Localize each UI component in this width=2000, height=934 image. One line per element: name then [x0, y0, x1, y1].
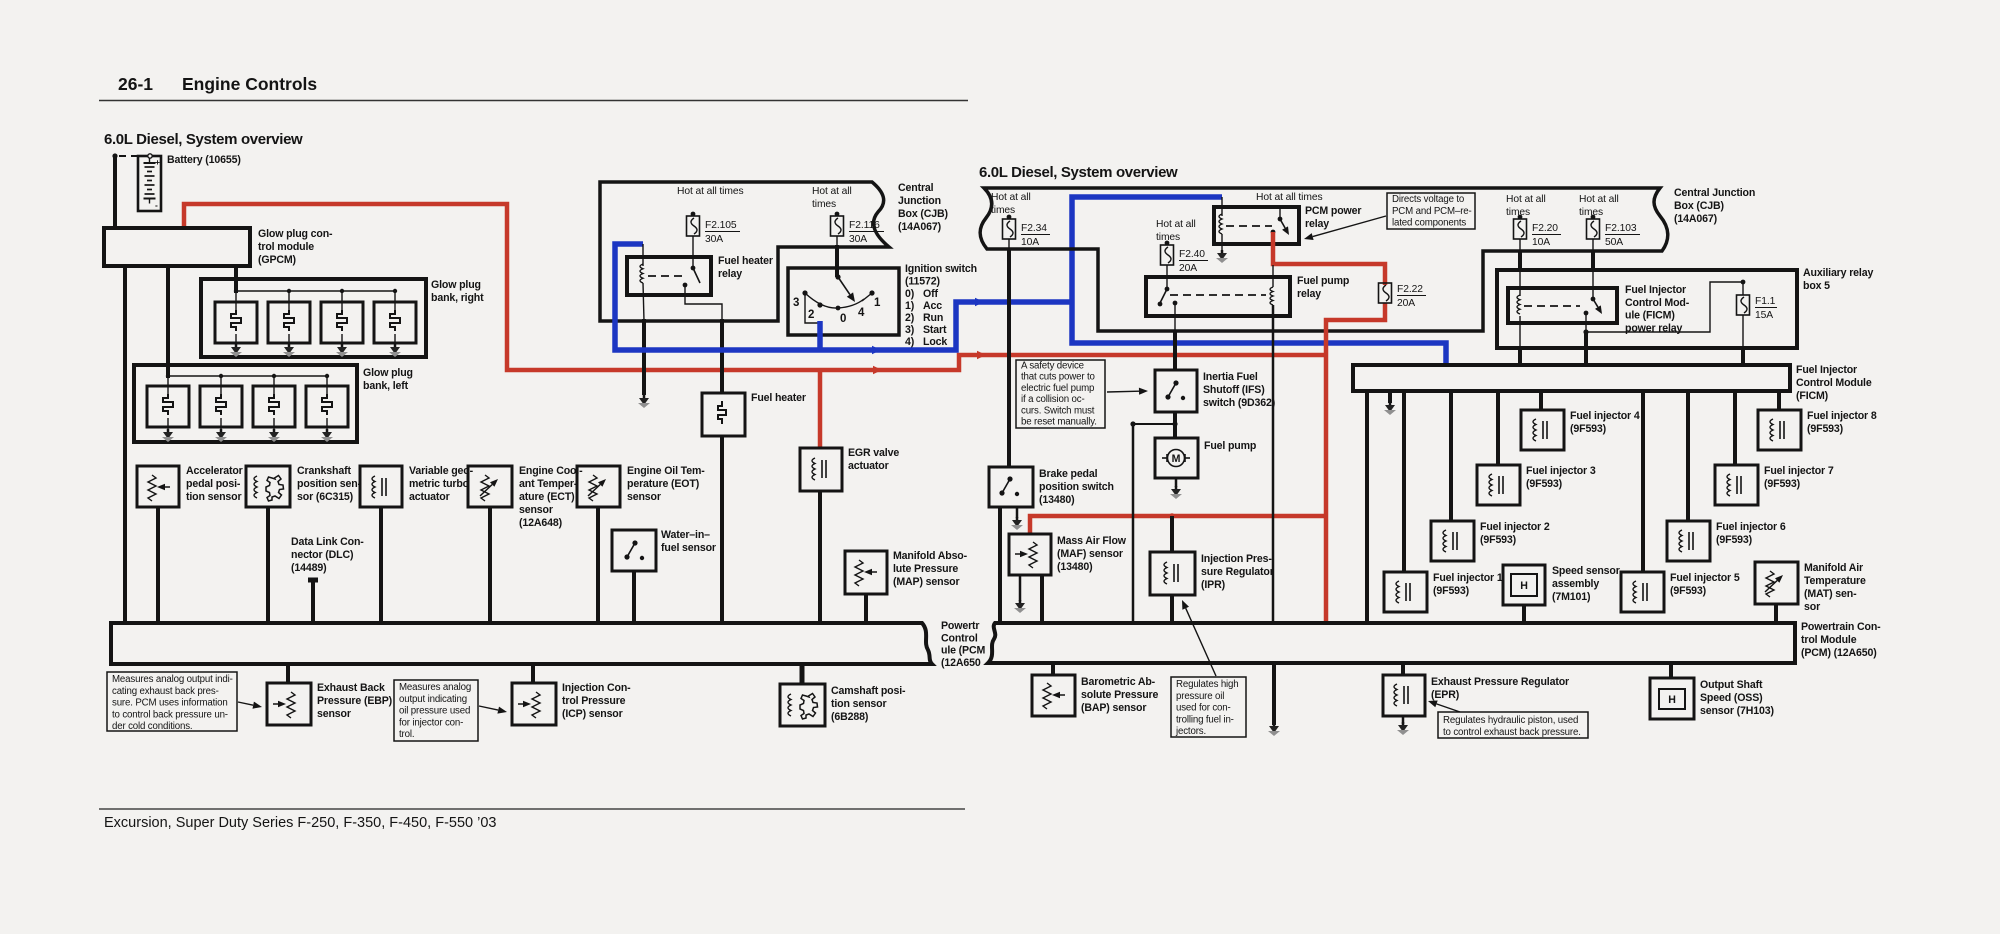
svg-text:Fuel Injector: Fuel Injector — [1625, 284, 1686, 296]
note: measures analog output exhaust back pressure — [107, 672, 237, 731]
fuel injector 4 9F593 — [1539, 391, 1543, 410]
svg-text:Injection Pres-: Injection Pres- — [1201, 553, 1272, 565]
svg-text:Hot at all times: Hot at all times — [677, 186, 744, 197]
barometric absolute pressure BAP sensor — [1051, 663, 1055, 675]
svg-text:Lock: Lock — [923, 336, 947, 348]
svg-text:pedal posi-: pedal posi- — [186, 478, 241, 490]
svg-text:actuator: actuator — [409, 491, 450, 503]
svg-text:sure Regulator: sure Regulator — [1201, 566, 1274, 578]
svg-text:Fuel Injector: Fuel Injector — [1796, 364, 1857, 376]
auxiliary relay box 5 — [1497, 270, 1797, 348]
FICM ground stub — [1388, 391, 1392, 403]
svg-text:sensor: sensor — [317, 708, 351, 720]
svg-text:(9F593): (9F593) — [1526, 478, 1562, 490]
svg-text:(BAP) sensor: (BAP) sensor — [1081, 702, 1146, 714]
svg-text:F2.34: F2.34 — [1021, 223, 1047, 234]
fuel injector control module FICM power relay — [1508, 288, 1617, 323]
svg-text:Data Link Con-: Data Link Con- — [291, 536, 364, 548]
svg-text:2: 2 — [808, 309, 814, 321]
svg-text:26-1: 26-1 — [118, 74, 153, 94]
svg-text:jectors.: jectors. — [1175, 726, 1206, 737]
svg-text:(11572): (11572) — [905, 276, 940, 288]
accelerator pedal position sensor — [137, 466, 179, 507]
svg-text:lute Pressure: lute Pressure — [893, 563, 958, 575]
svg-text:30A: 30A — [849, 234, 867, 245]
svg-text:sure. PCM uses information: sure. PCM uses information — [112, 698, 228, 709]
fuel injector 7 9F593 — [1733, 391, 1737, 465]
fuel injector 8 9F593 — [1777, 391, 1781, 410]
wire GPCM to glow bank left — [166, 266, 170, 378]
svg-text:relay: relay — [1305, 218, 1329, 230]
svg-text:Box (CJB): Box (CJB) — [898, 208, 948, 220]
svg-text:ant Temper-: ant Temper- — [519, 478, 578, 490]
central junction box CJB 14A067 outline (left) — [600, 182, 889, 321]
svg-text:Excursion, Super Duty Series F: Excursion, Super Duty Series F-250, F-35… — [104, 815, 496, 831]
svg-text:Fuel injector 5: Fuel injector 5 — [1670, 572, 1740, 584]
svg-text:that cuts power to: that cuts power to — [1021, 372, 1095, 383]
svg-text:PCM and PCM–re-: PCM and PCM–re- — [1392, 206, 1472, 217]
svg-text:(EPR): (EPR) — [1431, 689, 1459, 701]
wire battery to GPCM — [113, 157, 117, 228]
svg-text:F2.22: F2.22 — [1397, 284, 1423, 295]
glow plug bank left internal bus — [168, 375, 327, 377]
glow plug L4 — [325, 374, 329, 378]
svg-text:Hot at all times: Hot at all times — [1256, 192, 1323, 203]
svg-text:3): 3) — [905, 324, 914, 336]
svg-text:nector (DLC): nector (DLC) — [291, 549, 353, 561]
svg-text:1: 1 — [874, 297, 881, 309]
svg-text:trolling fuel in-: trolling fuel in- — [1176, 714, 1234, 725]
svg-text:(9F593): (9F593) — [1670, 585, 1706, 597]
fuel heater relay — [627, 257, 711, 295]
fuel injector 2 9F593 — [1449, 391, 1453, 521]
svg-text:(GPCM): (GPCM) — [258, 254, 296, 266]
svg-text:Mass Air Flow: Mass Air Flow — [1057, 535, 1127, 547]
svg-text:(13480): (13480) — [1039, 494, 1074, 506]
svg-text:(9F593): (9F593) — [1764, 478, 1800, 490]
svg-text:Control Mod-: Control Mod- — [1625, 297, 1690, 309]
svg-text:Glow plug: Glow plug — [363, 367, 413, 379]
svg-text:3: 3 — [793, 297, 799, 309]
battery B1 (10655) — [138, 156, 161, 211]
wire relay output to fuel heater — [685, 287, 722, 322]
wire GPCM to PCM bus — [123, 266, 127, 623]
svg-text:50A: 50A — [1605, 237, 1623, 248]
svg-text:20A: 20A — [1179, 263, 1197, 274]
svg-text:M: M — [1172, 453, 1181, 465]
red battery feed wire — [184, 204, 1326, 370]
wire PCM power relay to fuel pump relay coil — [1272, 265, 1274, 287]
svg-text:(9F593): (9F593) — [1570, 423, 1606, 435]
svg-text:6.0L Diesel, System overview: 6.0L Diesel, System overview — [979, 164, 1178, 181]
svg-text:times: times — [812, 199, 836, 210]
svg-text:Hot at all: Hot at all — [812, 186, 852, 197]
powertrain control module PCM bus (right) 12A650 — [988, 623, 1795, 663]
svg-text:Fuel injector 8: Fuel injector 8 — [1807, 410, 1877, 422]
glow plug bank right box — [201, 279, 426, 357]
svg-text:(12A650: (12A650 — [941, 657, 981, 669]
svg-text:bank, left: bank, left — [363, 380, 409, 392]
svg-text:box 5: box 5 — [1803, 280, 1830, 292]
svg-text:F2.40: F2.40 — [1179, 249, 1205, 260]
fuse F2.22 20A — [1379, 283, 1392, 303]
svg-text:Central: Central — [898, 182, 934, 194]
glow plug R3 — [340, 289, 344, 293]
svg-text:Ignition switch: Ignition switch — [905, 263, 977, 275]
svg-text:10A: 10A — [1021, 237, 1039, 248]
svg-text:sensor (7H103): sensor (7H103) — [1700, 705, 1774, 717]
svg-text:(PCM) (12A650): (PCM) (12A650) — [1801, 647, 1877, 659]
svg-text:Crankshaft: Crankshaft — [297, 465, 351, 477]
svg-text:bank, right: bank, right — [431, 292, 484, 304]
svg-text:H: H — [1668, 694, 1676, 706]
wire PCM power relay coil to ground — [1221, 234, 1223, 251]
svg-text:position switch: position switch — [1039, 481, 1114, 493]
svg-text:Start: Start — [923, 324, 947, 336]
svg-text:der cold conditions.: der cold conditions. — [112, 721, 192, 732]
fuel pump — [1155, 438, 1198, 478]
wire GPCM to glow bank right — [234, 266, 238, 293]
svg-text:Manifold Air: Manifold Air — [1804, 562, 1863, 574]
svg-text:sor: sor — [1804, 601, 1820, 613]
svg-text:relay: relay — [718, 268, 742, 280]
svg-text:fuel sensor: fuel sensor — [661, 542, 716, 554]
fuel pump relay — [1146, 277, 1290, 316]
svg-text:-: - — [155, 200, 158, 210]
glow plug R2 — [287, 289, 291, 293]
injection pressure regulator IPR — [1169, 513, 1175, 519]
fuel injector 6 9F593 — [1686, 391, 1690, 521]
svg-text:trol Pressure: trol Pressure — [562, 695, 626, 707]
svg-text:ule (FICM): ule (FICM) — [1625, 310, 1675, 322]
svg-text:Speed sensor: Speed sensor — [1552, 565, 1620, 577]
svg-text:Brake pedal: Brake pedal — [1039, 468, 1098, 480]
svg-text:Glow plug: Glow plug — [431, 279, 481, 291]
wire FICM relay coil down — [1519, 316, 1521, 348]
svg-text:(MAP) sensor: (MAP) sensor — [893, 576, 960, 588]
svg-text:switch (9D362): switch (9D362) — [1203, 397, 1275, 409]
svg-text:Manifold Abso-: Manifold Abso- — [893, 550, 968, 562]
glow plug R4 — [393, 289, 397, 293]
svg-text:Control Module: Control Module — [1796, 377, 1872, 389]
svg-text:be reset manually.: be reset manually. — [1021, 417, 1097, 428]
camshaft position sensor 6B288 — [800, 664, 805, 684]
svg-text:Directs voltage to: Directs voltage to — [1392, 194, 1464, 205]
svg-text:4: 4 — [858, 307, 865, 319]
svg-text:Pressure (EBP): Pressure (EBP) — [317, 695, 392, 707]
fuel injector 5 9F593 — [1641, 391, 1645, 572]
variable geometric turbo actuator — [360, 466, 402, 507]
svg-text:output indicating: output indicating — [399, 694, 467, 705]
svg-text:(9F593): (9F593) — [1480, 534, 1516, 546]
svg-text:Shutoff (IFS): Shutoff (IFS) — [1203, 384, 1265, 396]
svg-text:(6B288): (6B288) — [831, 711, 868, 723]
note: directs voltage to PCM — [1387, 193, 1475, 229]
svg-text:lated components: lated components — [1392, 218, 1466, 229]
red wire PCM power relay to F2.22 and PCM — [1273, 232, 1385, 285]
svg-text:Variable geo-: Variable geo- — [409, 465, 474, 477]
svg-text:(13480): (13480) — [1057, 561, 1092, 573]
svg-text:Central Junction: Central Junction — [1674, 187, 1755, 199]
svg-text:Camshaft posi-: Camshaft posi- — [831, 685, 906, 697]
ignition switch 11572 — [788, 268, 899, 335]
svg-text:perature (EOT): perature (EOT) — [627, 478, 699, 490]
svg-text:for injector con-: for injector con- — [399, 717, 463, 728]
glow plug L2 — [219, 374, 223, 378]
glow plug R1 — [234, 289, 238, 293]
svg-text:Acc: Acc — [923, 300, 942, 312]
svg-text:(FICM): (FICM) — [1796, 390, 1828, 402]
svg-text:trol.: trol. — [399, 729, 414, 740]
svg-text:Control: Control — [941, 632, 978, 644]
wire fuel pump relay coil to PCM bus — [1272, 305, 1275, 623]
svg-text:times: times — [991, 205, 1015, 216]
svg-text:A safety device: A safety device — [1021, 361, 1084, 372]
svg-text:curs. Switch must: curs. Switch must — [1021, 405, 1095, 416]
ground below PCM bus — [1272, 663, 1276, 725]
svg-text:F2.20: F2.20 — [1532, 223, 1558, 234]
svg-text:trol Module: trol Module — [1801, 634, 1857, 646]
svg-text:Inertia Fuel: Inertia Fuel — [1203, 371, 1258, 383]
svg-text:Hot at all: Hot at all — [1156, 219, 1196, 230]
svg-text:Fuel injector 6: Fuel injector 6 — [1716, 521, 1786, 533]
water-in-fuel sensor — [612, 530, 656, 571]
glow plug L3 — [272, 374, 276, 378]
svg-text:H: H — [1520, 580, 1528, 592]
svg-text:(9F593): (9F593) — [1807, 423, 1843, 435]
fuel injector 1 9F593 — [1402, 391, 1406, 572]
svg-text:assembly: assembly — [1552, 578, 1599, 590]
output shaft speed OSS sensor 7H103 — [1669, 663, 1673, 678]
svg-text:F2.105: F2.105 — [705, 220, 737, 231]
svg-text:Powertr: Powertr — [941, 620, 979, 632]
blue wire CJB2 to relays / FICM — [1072, 197, 1446, 365]
red wire EGR branch — [818, 370, 823, 448]
note: measures analog output oil pressure — [394, 680, 478, 741]
svg-text:Auxiliary relay: Auxiliary relay — [1803, 267, 1873, 279]
brake pedal position switch 13480 — [989, 467, 1033, 507]
note: regulates high pressure oil — [1171, 677, 1246, 737]
glow plug bank left box — [134, 365, 357, 442]
wire FICM relay output to F1.1 and FICM — [1585, 313, 1587, 332]
engine coolant temperature ECT sensor 12A648 — [468, 466, 512, 507]
svg-text:sor (6C315): sor (6C315) — [297, 491, 353, 503]
svg-text:(9F593): (9F593) — [1433, 585, 1469, 597]
exhaust pressure regulator EPR — [1401, 663, 1405, 675]
manifold air temperature MAT sensor — [1755, 562, 1798, 604]
svg-text:15A: 15A — [1755, 310, 1773, 321]
svg-text:Barometric Ab-: Barometric Ab- — [1081, 676, 1156, 688]
svg-text:30A: 30A — [705, 234, 723, 245]
svg-text:Regulates high: Regulates high — [1176, 679, 1239, 690]
note: a safety device IFS — [1016, 360, 1105, 428]
engine oil temperature EOT sensor — [577, 466, 620, 507]
svg-text:actuator: actuator — [848, 460, 889, 472]
svg-text:0: 0 — [840, 313, 846, 325]
svg-text:Measures analog: Measures analog — [399, 682, 471, 693]
svg-text:(7M101): (7M101) — [1552, 591, 1590, 603]
svg-text:Accelerator: Accelerator — [186, 465, 243, 477]
svg-text:(14A067): (14A067) — [898, 221, 941, 233]
svg-text:Powertrain Con-: Powertrain Con- — [1801, 621, 1881, 633]
crankshaft position sensor 6C315 — [246, 466, 290, 507]
wire IFS to fuel pump with PCM tap — [1173, 412, 1177, 438]
svg-text:to control exhaust back pressu: to control exhaust back pressure. — [1443, 727, 1581, 738]
glow plug control module GPCM — [104, 228, 250, 266]
svg-text:tion sensor: tion sensor — [186, 491, 241, 503]
svg-text:Run: Run — [923, 312, 943, 324]
svg-text:Engine Oil Tem-: Engine Oil Tem- — [627, 465, 705, 477]
note: regulates hydraulic piston — [1438, 712, 1588, 738]
wire FICM to PCM — [1365, 391, 1369, 623]
svg-text:(MAF) sensor: (MAF) sensor — [1057, 548, 1123, 560]
exhaust back pressure EBP sensor — [286, 664, 290, 683]
glow plug bank right internal bus — [236, 290, 395, 292]
svg-text:Fuel injector 3: Fuel injector 3 — [1526, 465, 1596, 477]
svg-text:F1.1: F1.1 — [1755, 296, 1776, 307]
svg-text:(9F593): (9F593) — [1716, 534, 1752, 546]
svg-text:ule (PCM: ule (PCM — [941, 645, 985, 657]
svg-text:Fuel heater: Fuel heater — [751, 392, 806, 404]
svg-text:Hot at all: Hot at all — [991, 192, 1031, 203]
svg-text:Junction: Junction — [898, 195, 941, 207]
ground (brake pedal switch) — [1016, 507, 1019, 518]
svg-text:20A: 20A — [1397, 298, 1415, 309]
svg-text:(IPR): (IPR) — [1201, 579, 1225, 591]
svg-text:F2.116: F2.116 — [849, 220, 880, 231]
svg-text:(MAT) sen-: (MAT) sen- — [1804, 588, 1857, 600]
svg-text:pressure oil: pressure oil — [1176, 691, 1224, 702]
svg-text:Injection Con-: Injection Con- — [562, 682, 631, 694]
manifold absolute pressure MAP sensor — [845, 551, 887, 594]
speed sensor assembly 7M101 — [1503, 565, 1545, 605]
inertia fuel shutoff IFS switch 9D362 — [1155, 370, 1197, 412]
svg-text:Water–in–: Water–in– — [661, 529, 710, 541]
svg-text:if a collision oc-: if a collision oc- — [1021, 394, 1085, 405]
svg-text:Fuel injector 7: Fuel injector 7 — [1764, 465, 1834, 477]
svg-text:(ICP) sensor: (ICP) sensor — [562, 708, 623, 720]
injection control pressure ICP sensor — [531, 664, 535, 683]
svg-text:F2.103: F2.103 — [1605, 223, 1637, 234]
svg-text:Hot at all: Hot at all — [1506, 194, 1546, 205]
svg-text:Fuel injector 2: Fuel injector 2 — [1480, 521, 1550, 533]
svg-text:to control back pressure un-: to control back pressure un- — [112, 709, 228, 720]
svg-text:(14489): (14489) — [291, 562, 326, 574]
svg-text:(14A067): (14A067) — [1674, 213, 1717, 225]
fuel injector control module FICM bus — [1353, 365, 1790, 391]
svg-text:Exhaust Back: Exhaust Back — [317, 682, 385, 694]
svg-text:Glow plug con-: Glow plug con- — [258, 228, 333, 240]
svg-text:Fuel heater: Fuel heater — [718, 255, 773, 267]
svg-text:Measures analog output indi-: Measures analog output indi- — [112, 674, 233, 685]
fuel heater — [702, 393, 745, 436]
fuse F1.1 15A — [1741, 280, 1746, 285]
svg-text:10A: 10A — [1532, 237, 1550, 248]
svg-text:cating exhaust back pres-: cating exhaust back pres- — [112, 686, 219, 697]
ground (EPR) — [1402, 716, 1405, 724]
svg-text:Exhaust Pressure Regulator: Exhaust Pressure Regulator — [1431, 676, 1569, 688]
svg-text:Off: Off — [923, 288, 938, 300]
svg-text:(12A648): (12A648) — [519, 517, 562, 529]
svg-text:2): 2) — [905, 312, 914, 324]
EGR valve actuator — [800, 448, 842, 491]
svg-text:ature (ECT): ature (ECT) — [519, 491, 574, 503]
svg-text:0): 0) — [905, 288, 914, 300]
ground (MAF sensor) — [1019, 575, 1022, 601]
svg-text:electric fuel pump: electric fuel pump — [1021, 383, 1094, 394]
glow plug L1 — [166, 374, 170, 378]
svg-text:metric turbo: metric turbo — [409, 478, 470, 490]
wire fuel pump relay to IFS switch — [1174, 303, 1176, 332]
svg-text:4): 4) — [905, 336, 914, 348]
svg-text:EGR valve: EGR valve — [848, 447, 899, 459]
svg-text:Box (CJB): Box (CJB) — [1674, 200, 1724, 212]
svg-text:Battery (10655): Battery (10655) — [167, 154, 241, 166]
svg-text:position sen-: position sen- — [297, 478, 362, 490]
svg-text:6.0L Diesel, System overview: 6.0L Diesel, System overview — [104, 131, 303, 148]
fuel injector 3 9F593 — [1496, 391, 1500, 465]
svg-text:Fuel injector 1: Fuel injector 1 — [1433, 572, 1503, 584]
svg-text:+: + — [155, 157, 160, 167]
svg-text:Engine Cool-: Engine Cool- — [519, 465, 583, 477]
svg-text:oil pressure used: oil pressure used — [399, 706, 470, 717]
svg-text:sensor: sensor — [627, 491, 661, 503]
wire relay coil to ground — [643, 283, 644, 321]
svg-text:Temperature: Temperature — [1804, 575, 1866, 587]
wire blue to fuel heater relay coil — [642, 244, 644, 266]
svg-text:Hot at all: Hot at all — [1579, 194, 1619, 205]
svg-text:sensor: sensor — [519, 504, 553, 516]
svg-text:Fuel pump: Fuel pump — [1204, 440, 1257, 452]
svg-text:PCM power: PCM power — [1305, 205, 1361, 217]
mass air flow MAF sensor 13480 — [1009, 534, 1051, 575]
svg-text:Speed (OSS): Speed (OSS) — [1700, 692, 1763, 704]
svg-text:used for con-: used for con- — [1176, 703, 1231, 714]
blue ignition run feed wire — [817, 321, 823, 350]
svg-text:tion sensor: tion sensor — [831, 698, 886, 710]
svg-text:relay: relay — [1297, 288, 1321, 300]
footer rule — [99, 808, 965, 810]
svg-text:solute Pressure: solute Pressure — [1081, 689, 1158, 701]
powertrain control module PCM bus (left) — [111, 623, 932, 664]
svg-text:Engine Controls: Engine Controls — [182, 74, 317, 94]
svg-text:Output Shaft: Output Shaft — [1700, 679, 1763, 691]
svg-text:trol module: trol module — [258, 241, 314, 253]
ground (fuel pump) — [1175, 478, 1178, 487]
svg-text:Regulates hydraulic piston, us: Regulates hydraulic piston, used — [1443, 715, 1578, 726]
svg-text:Fuel pump: Fuel pump — [1297, 275, 1350, 287]
central junction box CJB 14A067 outline (right) — [980, 188, 1668, 331]
svg-text:1): 1) — [905, 300, 914, 312]
svg-text:Fuel injector 4: Fuel injector 4 — [1570, 410, 1640, 422]
